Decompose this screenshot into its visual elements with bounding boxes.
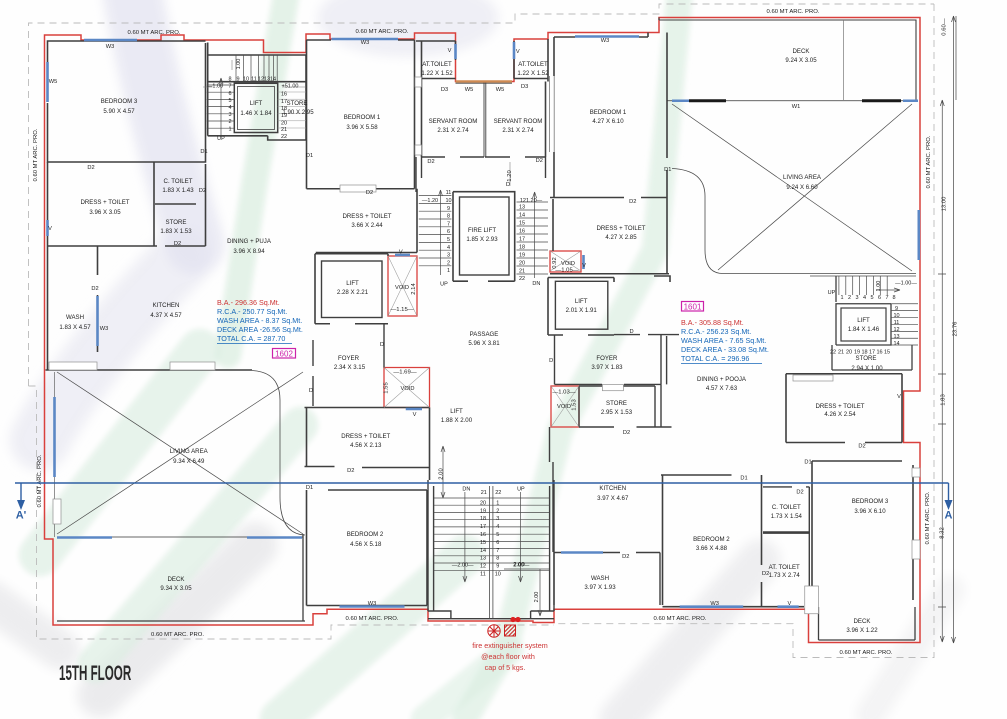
svg-text:1: 1 [496,500,499,506]
svg-text:DECK: DECK [793,48,810,55]
svg-text:1.55: 1.55 [384,382,390,394]
svg-text:20: 20 [519,261,525,267]
svg-text:16: 16 [519,229,525,235]
stairs-R flight B treads [891,304,918,345]
svg-text:0.60—: 0.60— [942,18,948,35]
svg-text:—2.00—: —2.00— [452,563,474,569]
svg-text:5: 5 [496,532,499,538]
svg-text:0.60 MT ARC. PRO.: 0.60 MT ARC. PRO. [37,454,43,507]
svg-text:3.97 X 4.67: 3.97 X 4.67 [597,495,629,502]
svg-text:17: 17 [519,237,525,243]
svg-text:3.96 X 1.22: 3.96 X 1.22 [846,627,878,634]
window W3 bedroom2-L [340,605,405,608]
svg-text:1.83 X 1.53: 1.83 X 1.53 [160,228,192,235]
svg-text:14: 14 [519,213,525,219]
windows [48,37,921,614]
svg-text:11: 11 [480,572,486,578]
svg-text:1.83 X 1.43: 1.83 X 1.43 [162,187,194,194]
svg-text:13: 13 [519,205,525,211]
svg-text:1.00: 1.00 [876,281,882,292]
svg-text:AT.TOILET: AT.TOILET [422,61,452,68]
svg-text:2: 2 [496,508,499,514]
svg-text:D: D [309,388,313,394]
svg-text:4.56 X 5.18: 4.56 X 5.18 [350,541,382,548]
svg-text:15: 15 [884,350,890,356]
svg-text:2.00: 2.00 [513,562,525,568]
svg-text:4.56 X 2.13: 4.56 X 2.13 [350,442,382,449]
svg-text:0.60 MT ARC. PRO.: 0.60 MT ARC. PRO. [767,9,820,15]
svg-text:17: 17 [281,99,287,105]
bedroom1-R [550,33,667,274]
svg-text:VOID: VOID [557,404,571,410]
svg-text:3.97 X 1.93: 3.97 X 1.93 [584,584,616,591]
void 1602 red box [388,256,417,316]
svg-text:14: 14 [480,548,486,554]
bedroom3-R [812,461,913,607]
svg-text:1.20: 1.20 [507,170,513,182]
stair numbers fire lift flights [422,190,543,287]
stair numbers right flat [828,281,918,356]
living-L W line [57,536,303,538]
svg-text:14: 14 [893,341,899,347]
dining area boundary right of store [660,384,662,427]
bottom stairs divider [490,486,493,619]
core-L UP arrow [219,78,223,135]
svg-text:BEDROOM 3: BEDROOM 3 [101,98,138,105]
svg-text:1.83: 1.83 [941,394,947,406]
deck-R2 [819,607,916,640]
fire-lift left flight treads [419,196,452,266]
window wash-R [561,551,603,554]
window W3 bedroom1-R [575,35,639,38]
living-R X cross [672,104,912,271]
svg-text:10: 10 [243,77,249,83]
svg-text:21: 21 [281,127,287,133]
svg-text:23.76: 23.76 [953,321,959,336]
svg-text:WASH AREA - 7.65 Sq.Mt.: WASH AREA - 7.65 Sq.Mt. [681,336,766,345]
svg-text:20: 20 [846,350,852,356]
svg-text:D1: D1 [306,153,313,159]
lift-R shaft [548,276,670,335]
svg-text:18: 18 [519,245,525,251]
svg-text:2.00: 2.00 [534,592,540,603]
window V void-1602b [406,408,422,411]
svg-text:D: D [380,342,384,348]
dress+toilet-L2 4.56x2.13 [305,408,430,481]
toilets-R column [763,487,809,605]
living area 1602 top wall [46,369,253,371]
svg-text:7: 7 [496,548,499,554]
svg-text:2.28 X 2.21: 2.28 X 2.21 [337,289,369,296]
svg-text:D3: D3 [521,84,528,90]
svg-text:PASSAGE: PASSAGE [470,331,499,338]
outer building perimeter red line [45,18,921,643]
svg-text:DINING + PUJA: DINING + PUJA [227,238,272,245]
svg-text:20: 20 [281,121,287,127]
svg-text:1.83 X 4.57: 1.83 X 4.57 [59,324,91,331]
svg-text:4: 4 [228,105,231,111]
svg-text:D1: D1 [306,485,313,491]
svg-text:13.00: 13.00 [942,196,948,211]
window W5 servant orange band [456,80,513,82]
svg-text:1.88 X 2.00: 1.88 X 2.00 [441,417,473,424]
door window labels [48,38,901,607]
svg-text:0.60 MT ARC. PRO.: 0.60 MT ARC. PRO. [925,491,931,544]
W1 line [667,100,918,102]
dress+toilet 3.66x2.44 [316,189,417,253]
svg-text:W3: W3 [106,44,115,50]
svg-text:5.90 X 4.57: 5.90 X 4.57 [103,108,135,115]
svg-text:D2: D2 [622,554,629,560]
svg-text:DECK AREA -26.56 Sq.Mt.: DECK AREA -26.56 Sq.Mt. [217,325,303,334]
svg-text:2.95 X 1.53: 2.95 X 1.53 [601,409,633,416]
svg-text:VOID: VOID [561,261,575,267]
bedroom1-L walls [307,40,415,189]
svg-text:SERVANT ROOM: SERVANT ROOM [429,118,478,125]
svg-text:D2: D2 [629,199,636,205]
svg-text:16: 16 [480,532,486,538]
fire extinguisher note [472,641,548,672]
living-L X cross [57,372,303,534]
svg-text:B.A.- 296.36 Sq.Mt.: B.A.- 296.36 Sq.Mt. [217,298,280,307]
sill blocks [49,77,920,614]
svg-text:LIFT: LIFT [450,408,463,415]
lift 1602 box [234,83,277,132]
bottom central stairs block [428,480,554,619]
svg-text:3.96 X 3.05: 3.96 X 3.05 [89,209,121,216]
bottom stairs UP arrow [519,492,523,582]
svg-text:7: 7 [447,221,450,227]
svg-text:V: V [788,601,792,607]
svg-text:D2: D2 [366,190,373,196]
dress+toilet-R 4.27x2.85 [550,199,669,274]
void X crosses [384,251,581,427]
stairs-R flight A arrow [876,288,900,292]
window V dress-L [46,220,49,236]
living-R floor edge [672,169,916,277]
svg-text:WASH: WASH [66,314,84,321]
svg-text:DECK AREA - 33.08 Sq.Mt.: DECK AREA - 33.08 Sq.Mt. [681,345,769,354]
svg-text:9.24 X 3.05: 9.24 X 3.05 [785,57,817,64]
bedroom3-L bottom rooms: dress+toilet / c.toilet / store [48,162,206,246]
svg-text:R.C.A.- 250.77 Sq.Mt.: R.C.A.- 250.77 Sq.Mt. [217,307,287,316]
svg-text:10: 10 [495,572,501,578]
svg-text:5.96 X 3.81: 5.96 X 3.81 [468,340,500,347]
svg-text:D: D [629,329,633,335]
svg-text:3: 3 [855,295,858,301]
svg-text:0.60 MT ARC. PRO.: 0.60 MT ARC. PRO. [33,128,39,181]
svg-text:9: 9 [496,564,499,570]
svg-text:DN: DN [462,487,470,493]
svg-text:7: 7 [228,84,231,90]
svg-text:18: 18 [861,350,867,356]
svg-text:W1: W1 [792,104,801,110]
svg-text:3: 3 [228,112,231,118]
svg-text:0.60 MT ARC. PRO.: 0.60 MT ARC. PRO. [151,632,204,638]
svg-text:11: 11 [251,77,257,83]
bottom stairs treads [434,498,550,570]
svg-text:121.20—: 121.20— [520,198,543,204]
svg-text:V: V [413,412,417,418]
svg-text:LIVING AREA: LIVING AREA [783,174,822,181]
foyer-L walls [313,324,384,406]
svg-text:0.60 MT ARC. PRO.: 0.60 MT ARC. PRO. [128,30,181,36]
svg-text:9: 9 [236,77,239,83]
core-L dim leaders [203,60,306,87]
bedroom2-R [661,475,804,607]
svg-text:FIRE LIFT: FIRE LIFT [468,227,496,234]
flat 1601 area annotation [682,302,704,312]
deck-R inner [659,18,916,101]
svg-text:2.01 X 1.91: 2.01 X 1.91 [566,307,598,314]
svg-text:TOTAL C.A. = 287.70: TOTAL C.A. = 287.70 [217,334,285,343]
svg-text:0.60 MT ARC. PRO.: 0.60 MT ARC. PRO. [356,29,409,35]
svg-text:12: 12 [893,327,899,333]
svg-text:19: 19 [281,113,287,119]
svg-text:A: A [945,510,953,522]
fire extinguisher symbol [488,625,516,637]
svg-text:3: 3 [496,516,499,522]
svg-text:V: V [399,250,403,256]
svg-text:V: V [48,226,52,232]
svg-text:BEDROOM 2: BEDROOM 2 [347,531,384,538]
svg-text:+51.00: +51.00 [282,84,299,90]
section line A-A' [15,483,949,503]
svg-text:5: 5 [447,237,450,243]
svg-text:STORE: STORE [606,400,627,407]
svg-text:3.96 X 5.58: 3.96 X 5.58 [346,124,378,131]
svg-text:1.85 X 2.93: 1.85 X 2.93 [466,236,498,243]
svg-text:5: 5 [870,295,873,301]
svg-text:W3: W3 [601,38,610,44]
svg-text:D2: D2 [87,165,94,171]
svg-text:18: 18 [480,516,486,522]
svg-text:3.66 X 2.44: 3.66 X 2.44 [351,222,383,229]
right dim line 2 [952,16,956,643]
window V void-1602 [395,254,410,257]
svg-text:2: 2 [447,260,450,266]
svg-text:FOYER: FOYER [596,355,618,362]
svg-text:VOID: VOID [401,386,415,392]
svg-text:6: 6 [496,540,499,546]
flat 1602 area annotation [217,298,303,343]
svg-text:4.57 X 7.63: 4.57 X 7.63 [706,385,738,392]
deck-R divider [843,20,845,100]
window W living-L [57,536,302,539]
svg-text:19: 19 [519,253,525,259]
bedroom2-L [307,490,428,606]
svg-text:V: V [582,263,586,269]
svg-text:1: 1 [228,127,231,133]
void 1601b red box [551,386,579,427]
svg-text:16: 16 [281,92,287,98]
svg-text:D3: D3 [441,87,448,93]
svg-text:2.31 X 2.74: 2.31 X 2.74 [502,127,534,134]
stair numbers bottom block [452,487,540,603]
right dim line short top [955,16,957,100]
living-L curved floor edge [252,371,305,536]
store-R 2.95x1.53 [579,386,672,427]
servant rooms + at-toilets center [416,39,548,157]
svg-text:C. TOILET: C. TOILET [772,504,801,511]
svg-text:BEDROOM 3: BEDROOM 3 [852,498,889,505]
core-L stairs upper flight risers [236,55,277,82]
svg-text:6: 6 [228,91,231,97]
svg-text:STORE: STORE [287,100,308,107]
svg-text:8: 8 [447,214,450,220]
svg-text:DRESS + TOILET: DRESS + TOILET [342,213,391,220]
svg-text:1.90 X 2.95: 1.90 X 2.95 [282,109,314,116]
window V deck-R2 [778,605,799,608]
svg-text:D1: D1 [740,476,747,482]
svg-text:4: 4 [863,295,866,301]
svg-text:1.22 X 1.52: 1.22 X 1.52 [421,70,453,77]
svg-text:WASH: WASH [591,575,609,582]
svg-text:11: 11 [894,320,900,326]
deck 1602 [57,534,305,621]
svg-text:10: 10 [893,313,899,319]
stairs-R flight A risers [839,276,887,295]
svg-text:9: 9 [447,206,450,212]
svg-text:0.60 MT ARC. PRO.: 0.60 MT ARC. PRO. [926,135,932,188]
svg-text:STORE: STORE [166,219,187,226]
svg-text:17: 17 [869,350,875,356]
svg-text:6: 6 [878,295,881,301]
svg-text:UP: UP [217,136,225,142]
svg-text:2.34 X 3.15: 2.34 X 3.15 [334,364,366,371]
svg-text:DRESS + TOILET: DRESS + TOILET [80,199,129,206]
svg-text:1.84 X 1.46: 1.84 X 1.46 [848,326,880,333]
svg-text:3.66 X 4.88: 3.66 X 4.88 [696,545,728,552]
svg-text:D: D [549,358,553,364]
svg-text:1602: 1602 [275,350,293,359]
svg-text:D2: D2 [427,159,434,165]
window left living-L [53,397,56,477]
svg-text:2: 2 [848,295,851,301]
fire lift shaft [453,192,515,282]
window V at-toilet-R [513,42,516,59]
svg-text:C. TOILET: C. TOILET [164,178,193,185]
foyer-R walls [555,335,680,385]
window right edge living-R [917,210,920,260]
svg-text:14: 14 [270,77,276,83]
svg-text:UP: UP [828,290,836,296]
svg-text:22: 22 [519,276,525,282]
svg-text:cap of 5 kgs.: cap of 5 kgs. [485,663,526,672]
svg-text:21: 21 [481,490,487,496]
svg-text:D2: D2 [762,571,769,577]
svg-text:TOTAL C.A. = 296.96: TOTAL C.A. = 296.96 [681,354,749,363]
svg-text:STORE: STORE [856,355,877,362]
svg-text:D2: D2 [858,444,865,450]
svg-text:W3: W3 [100,326,109,332]
svg-text:@each floor with: @each floor with [481,652,535,661]
svg-text:3.97 X 1.83: 3.97 X 1.83 [591,364,623,371]
svg-text:9.24 X 6.60: 9.24 X 6.60 [786,184,818,191]
svg-text:4.37 X 4.57: 4.37 X 4.57 [150,312,182,319]
svg-text:LIFT: LIFT [250,100,263,107]
svg-text:4: 4 [496,524,499,530]
svg-text:2.00: 2.00 [439,468,445,480]
svg-text:—1.00: —1.00 [207,84,223,90]
svg-text:—1.03—: —1.03— [552,390,575,396]
svg-text:15: 15 [519,221,525,227]
svg-text:BEDROOM 2: BEDROOM 2 [693,536,730,543]
svg-text:1: 1 [840,295,843,301]
window W1 living-R blue parts [672,99,918,102]
svg-text:FOYER: FOYER [338,355,360,362]
window W3 bedroom3-L [84,39,137,42]
svg-text:UP: UP [440,282,448,288]
svg-text:1.53: 1.53 [572,399,578,411]
svg-text:8.32: 8.32 [940,527,946,538]
svg-text:D2: D2 [174,241,181,247]
svg-text:V: V [516,49,520,55]
wash / kitchen divider [48,246,98,370]
svg-text:V: V [897,394,901,400]
svg-text:22: 22 [281,134,287,140]
svg-text:D2: D2 [623,430,630,436]
window V void-1601 [582,255,585,269]
svg-text:DN: DN [532,281,540,287]
svg-text:—1.05—: —1.05— [555,268,578,274]
svg-text:DECK: DECK [854,618,871,625]
svg-text:—1.15—: —1.15— [390,307,413,313]
svg-text:3.96 X 8.94: 3.96 X 8.94 [233,248,265,255]
stair numbers core-L [207,59,299,142]
svg-text:0.60 MT ARC. PRO.: 0.60 MT ARC. PRO. [654,616,707,622]
svg-text:D2: D2 [91,286,98,292]
svg-text:0.60 MT ARC. PRO.: 0.60 MT ARC. PRO. [346,616,399,622]
window V at-toilet-L [454,44,457,59]
svg-text:W3: W3 [710,601,719,607]
svg-text:D2: D2 [199,188,206,194]
svg-text:D: D [506,182,510,188]
lift-L shaft 2.28x2.21 [315,254,388,324]
thin lines (floor edges, stairs) [55,16,957,643]
svg-text:1.73 X 2.74: 1.73 X 2.74 [769,572,801,579]
svg-text:1.73 X 1.54: 1.73 X 1.54 [771,513,803,520]
svg-text:10: 10 [445,198,451,204]
bedroom1-R window sill line [550,76,555,152]
svg-text:1.00: 1.00 [236,59,242,70]
void 1602b red box [384,368,430,408]
svg-text:2.14: 2.14 [411,283,417,295]
svg-text:BEDROOM 1: BEDROOM 1 [344,114,381,121]
svg-text:V: V [448,48,452,54]
svg-text:1601: 1601 [684,303,702,312]
svg-text:8: 8 [496,556,499,562]
svg-text:6: 6 [447,229,450,235]
svg-text:D2: D2 [536,158,543,164]
svg-text:19: 19 [854,350,860,356]
svg-text:0.60 MT ARC. PRO.: 0.60 MT ARC. PRO. [840,650,893,656]
svg-text:—1.00—: —1.00— [895,281,917,287]
svg-text:1.22 X 1.52: 1.22 X 1.52 [517,70,549,77]
window W3 bedroom2-R [680,605,744,608]
svg-text:9: 9 [895,306,898,312]
living-L left wall line [54,372,56,537]
svg-text:SERVANT ROOM: SERVANT ROOM [494,118,543,125]
svg-text:D2: D2 [796,490,803,496]
svg-text:—1.69—: —1.69— [393,370,416,376]
svg-text:12: 12 [480,564,486,570]
svg-text:LIVING AREA: LIVING AREA [170,448,209,455]
svg-text:3: 3 [447,253,450,259]
svg-text:5: 5 [228,98,231,104]
svg-text:19: 19 [480,508,486,514]
svg-text:2.31 X 2.74: 2.31 X 2.74 [437,127,469,134]
